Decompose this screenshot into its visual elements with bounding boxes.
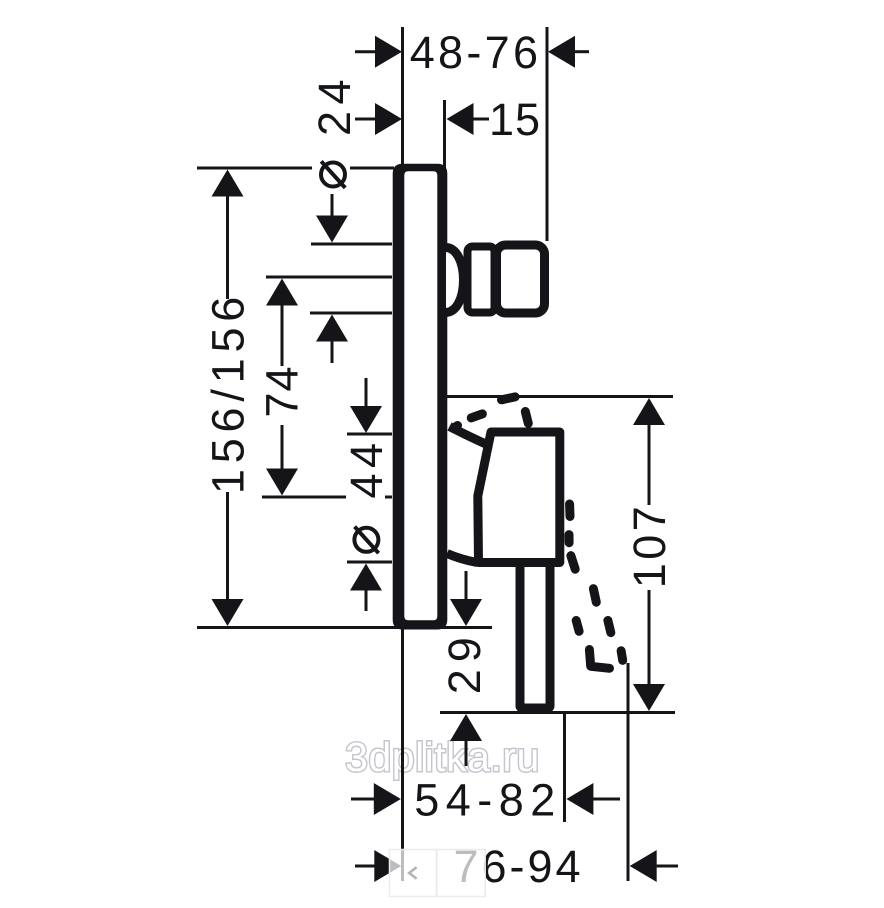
arrow 29 upper [450, 599, 482, 626]
handle body [478, 432, 560, 563]
arrow 15 left [375, 103, 402, 135]
svg-text:54-82: 54-82 [414, 775, 562, 826]
svg-text:15: 15 [489, 94, 541, 145]
carousel button left [390, 850, 437, 897]
arrow 107 bottom [633, 684, 665, 711]
arrow 74 bottom [266, 469, 298, 496]
svg-text:74: 74 [257, 365, 308, 417]
extension line wall top x402.5 [401, 27, 404, 170]
escutcheon cone bottom edge [447, 554, 477, 563]
extension line plate front x444.5 [443, 100, 446, 170]
extension line top plate y168 right of diameter symbol [350, 167, 394, 170]
extension line handle front x564.5 [563, 712, 566, 822]
escutcheon cone top edge [450, 427, 489, 446]
arrow o24 lower [316, 315, 348, 342]
spindle cap [497, 245, 545, 313]
dashed lever up segment 2 [471, 414, 482, 418]
extension line wall bottom x402.5 [401, 629, 404, 881]
arrow 156/156 bottom [212, 599, 244, 626]
dim 29 stem upper [465, 571, 468, 601]
dim 15 right tail [472, 118, 489, 121]
extension line spindle bottom y313 [310, 312, 392, 315]
extension line spindle top y244 [311, 243, 392, 246]
carousel button right [437, 850, 485, 897]
svg-text:107: 107 [624, 503, 675, 589]
arrow 74 top [266, 279, 298, 306]
dim 29 stem lower [465, 739, 468, 766]
arrow 76-94 right [630, 850, 657, 882]
dashed lever down tip [621, 651, 623, 661]
extension line handle bottom y562 [347, 561, 392, 564]
spindle dome [446, 248, 464, 313]
dim o44 leader upper [365, 378, 368, 408]
dim o44 stem lower [365, 588, 368, 611]
dim 74 stem lower [281, 425, 284, 471]
arrow 54-82 left [374, 783, 401, 815]
dim 15 left tail [355, 118, 377, 121]
arrow 15 right [447, 103, 474, 135]
dim 156/156 stem upper [226, 194, 229, 299]
dashed lever down segment b [565, 535, 574, 543]
dim 107 stem upper [648, 423, 651, 505]
extension line lever tip y712.5 [440, 711, 675, 714]
dashed lever up segment 3 [502, 397, 516, 400]
dim 74 stem upper [281, 303, 284, 366]
diameter symbol lower [354, 527, 378, 554]
dim 48-76 left tail [355, 50, 377, 53]
extension line plate bottom y627.5 [197, 626, 492, 629]
extension line lever up y396.5 [447, 395, 673, 398]
dashed lever down segment c [571, 556, 575, 570]
dim o24 leader upper [331, 194, 334, 221]
dim 156/156 stem lower [226, 492, 229, 602]
dashed lever down corner [589, 650, 609, 669]
arrow o24 upper [316, 216, 348, 243]
dim 48-76 right tail [574, 50, 590, 53]
svg-text:29: 29 [439, 630, 490, 694]
dim 76-94 left tail [355, 865, 380, 868]
arrow 107 top [633, 398, 665, 425]
dim 54-82 left tail [351, 798, 376, 801]
arrow 54-82 right [566, 783, 593, 815]
svg-text:3dplitka.ru: 3dplitka.ru [345, 734, 540, 780]
wall plate [393, 164, 448, 630]
extension line lever down tip x628 [627, 663, 630, 881]
arrow 29 lower [450, 714, 482, 741]
extension line handle top y434 [347, 433, 392, 436]
arrow 48-76 left [375, 36, 402, 68]
dim 76-94 right tail [657, 865, 678, 868]
extension line spindle axis y277 [266, 276, 392, 279]
spindle collar [468, 247, 495, 313]
arrow o44 lower [350, 564, 382, 591]
dashed lever up segment 1 [454, 426, 458, 429]
svg-text:48-76: 48-76 [410, 27, 542, 78]
arrow 76-94 left [374, 850, 401, 882]
dashed lever down segment d [576, 621, 579, 632]
svg-text:24: 24 [309, 73, 360, 136]
dashed lever down segment g [608, 621, 611, 633]
arrow 48-76 right [548, 36, 575, 68]
svg-text:44: 44 [341, 437, 392, 498]
dashed lever down segment a [565, 504, 574, 517]
arrow o44 upper [350, 406, 382, 433]
lever bar [520, 560, 550, 708]
dashed lever up end cap [525, 412, 528, 424]
arrow 156/156 top [212, 170, 244, 197]
svg-text:156/156: 156/156 [203, 291, 254, 494]
extension line top plate y168 left of diameter symbol [197, 167, 312, 170]
dim 54-82 right tail [593, 798, 620, 801]
dim o24 stem lower [331, 339, 334, 363]
extension line handle axis y497 left [262, 496, 346, 499]
dashed lever down segment f [593, 589, 596, 603]
diameter symbol upper [321, 161, 345, 188]
dim 107 stem lower [648, 590, 651, 686]
extension line knob front x547 [546, 27, 549, 241]
extension line handle axis y497 right tick [385, 496, 392, 499]
